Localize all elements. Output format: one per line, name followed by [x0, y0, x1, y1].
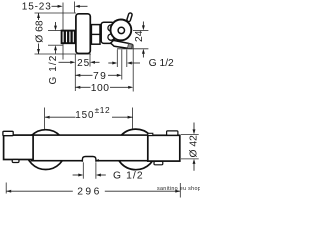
dimension line 296 — [6, 190, 11, 193]
left handle bottom tab — [12, 160, 19, 163]
joint notch on bottom edge — [97, 159, 99, 161]
lever gray tip — [128, 44, 133, 49]
thread dimension arrows — [55, 22, 57, 26]
extension line bottom of escutcheon — [35, 53, 92, 55]
svg-text:sanitino eu shop: sanitino eu shop — [157, 186, 200, 192]
outlet extension line left — [82, 162, 84, 178]
svg-text:296: 296 — [77, 187, 102, 198]
svg-text:100: 100 — [91, 83, 110, 94]
dimension line 150 +-12 — [45, 116, 50, 119]
right handle top step — [148, 133, 153, 135]
svg-text:±12: ±12 — [95, 105, 111, 115]
lever handle (top view) — [111, 40, 133, 48]
dimension arrow right for 15-23 — [52, 5, 60, 7]
svg-text:Ø 68: Ø 68 — [34, 20, 45, 43]
threaded stub (hatched) — [62, 31, 75, 44]
svg-text:79: 79 — [93, 71, 107, 82]
outlet dome — [82, 157, 96, 162]
dimension arrow left for 15-23 — [79, 5, 88, 7]
escutcheon body (top view) — [76, 14, 90, 54]
thread dimension ticks — [48, 30, 63, 32]
outlet extension line right — [95, 162, 97, 178]
extension line top of escutcheon — [35, 12, 77, 14]
svg-text:25: 25 — [77, 58, 90, 69]
right handle bottom tab — [154, 161, 163, 164]
extension line right inlet — [132, 108, 134, 131]
svg-text:24: 24 — [134, 30, 145, 42]
svg-text:G 1/2: G 1/2 — [149, 58, 174, 69]
left handle top tab — [3, 131, 13, 135]
right handle top tab — [167, 131, 178, 135]
extension line outlet left — [116, 50, 118, 68]
wall reference line — [62, 3, 64, 60]
extension line outlet right — [126, 50, 128, 68]
right handle block — [148, 135, 180, 161]
dimension 79 — [75, 74, 80, 77]
dimension 100 — [75, 86, 80, 89]
extension line left inlet — [44, 108, 46, 130]
left escutcheon circle — [26, 130, 66, 170]
bracket housing — [101, 22, 114, 43]
dimension G 1/2 outlet (top view) — [108, 62, 112, 64]
extension line outlet centre — [121, 50, 123, 80]
dimension G 1/2 outlet (front view) — [73, 174, 79, 176]
tick top for 24 — [133, 29, 148, 31]
dimension line D68 — [38, 13, 40, 20]
extension line 296 left — [5, 183, 7, 194]
escutcheon extension line left — [74, 54, 76, 91]
D42 tick bottom — [181, 158, 199, 160]
extension line 296 right — [179, 183, 181, 198]
knob skirt bumps — [108, 25, 114, 31]
dimension 25 — [59, 61, 72, 63]
safety tab capsule — [129, 15, 131, 20]
knob center — [118, 27, 124, 33]
left handle block — [4, 135, 33, 159]
knob (top view) — [111, 20, 132, 41]
extension line lever end — [132, 45, 134, 92]
D42 dimension arrows — [193, 123, 195, 130]
svg-text:15-23: 15-23 — [22, 2, 52, 13]
connector blocks — [91, 25, 100, 45]
D42 tick top — [181, 133, 199, 135]
mixer body bar — [32, 135, 149, 161]
svg-text:150: 150 — [75, 110, 94, 121]
escutcheon front reference line — [74, 2, 76, 13]
right escutcheon circle — [116, 129, 157, 170]
dimension line 24 — [142, 22, 144, 26]
svg-text:G 1/2: G 1/2 — [48, 55, 59, 85]
svg-text:G 1/2: G 1/2 — [113, 170, 144, 181]
escutcheon extension line right — [89, 54, 91, 67]
tick bottom for 24 — [117, 48, 148, 50]
svg-text:Ø 42: Ø 42 — [189, 135, 200, 158]
